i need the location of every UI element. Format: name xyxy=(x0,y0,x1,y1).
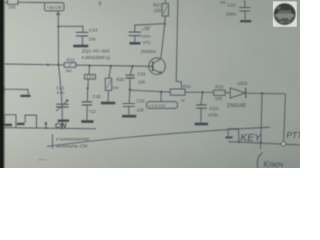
ground bottom-left B xyxy=(17,123,25,125)
node dot collector/C16 xyxy=(164,23,166,25)
wire branch to C14 xyxy=(58,26,83,31)
telegraph key symbol xyxy=(228,129,239,142)
node dot key bus 2 xyxy=(260,141,262,143)
wire node to right corner xyxy=(262,93,285,95)
wire R22 to C23 node xyxy=(185,91,214,93)
node label box "к 2-х CW" xyxy=(147,102,178,109)
crystal ZQ1 xyxy=(81,48,110,88)
ground bottom-left A xyxy=(2,124,12,126)
node +3v CW label box xyxy=(45,3,65,11)
terminal PTT circle xyxy=(281,142,285,146)
wire stub arrow onto CW wire xyxy=(45,122,47,127)
capacitor C23 xyxy=(196,92,219,122)
ground under C22 xyxy=(240,20,251,22)
ground bar of key symbol xyxy=(225,136,232,138)
paper sheet diagonal edge xyxy=(47,127,270,146)
capacitor C22 top right xyxy=(220,0,251,19)
ground under C23 xyxy=(195,123,208,126)
ground under R26 xyxy=(101,102,115,105)
wire right vertical to PTT xyxy=(284,94,286,142)
wire top rail to +3v box xyxy=(4,1,45,3)
resistor R21 xyxy=(153,0,168,24)
ground under trimmer xyxy=(58,120,69,122)
node dot C xyxy=(88,65,90,67)
dark left edge strip xyxy=(0,0,4,168)
capacitor C19 base-emitter xyxy=(125,66,146,89)
wire +3v vertical xyxy=(57,17,59,65)
ground under C20 xyxy=(122,115,136,118)
resistor R22 xyxy=(170,84,191,103)
node dot E xyxy=(131,65,133,67)
node dot A xyxy=(47,64,49,66)
wire main horizontal bus xyxy=(4,64,153,66)
capacitor C16 xyxy=(129,24,165,43)
wire from bus down to trimmer xyxy=(59,65,62,104)
faint smudge bottom left xyxy=(38,159,47,160)
small mark top middle xyxy=(98,1,102,6)
diode VD3 xyxy=(227,81,248,109)
capacitor C15 xyxy=(82,88,101,120)
wire R23 to VD3 xyxy=(225,92,230,94)
trimmer capacitor C13 xyxy=(56,86,69,120)
capacitor C20 xyxy=(123,90,146,115)
wire VD3 to node xyxy=(246,92,262,94)
logo circle avatar xyxy=(274,4,295,25)
IC pin stub A bottom-left xyxy=(4,115,16,128)
IC pin stub with ground (upper left) xyxy=(0,87,28,95)
node dot on CW wire xyxy=(45,127,47,129)
logo white square xyxy=(273,1,297,26)
wire key bottom bus xyxy=(228,142,300,145)
wire collector up to R21 xyxy=(161,24,165,59)
annotation leader line xyxy=(51,134,53,149)
capacitor C14 xyxy=(76,28,98,46)
arrow into +3v node xyxy=(57,12,60,17)
wire stub from trimmer ground to CW wire xyxy=(61,122,64,128)
ground under C14 xyxy=(73,45,88,48)
transistor VT1 xyxy=(141,40,166,75)
resistor R11 top-left xyxy=(8,0,19,10)
node dot on CW wire 2 xyxy=(60,127,62,129)
ground upper-left pin xyxy=(20,95,30,97)
resistor R12 series in bus xyxy=(64,58,76,73)
node junction dot xyxy=(57,25,59,27)
node dot crystal/C15 xyxy=(87,87,89,89)
ground under C15 xyxy=(81,120,93,123)
wire mid vertical to key bus xyxy=(261,94,262,149)
grain overlay xyxy=(0,0,300,168)
node dot emitter net left xyxy=(129,88,131,90)
node dot D xyxy=(110,65,112,67)
resistor R26 xyxy=(105,66,124,102)
node dot right xyxy=(261,92,263,94)
wire stub to CW label box xyxy=(160,92,162,101)
node dot B xyxy=(57,64,59,66)
node dot C23 xyxy=(201,91,203,93)
wire CW horizontal to synthesizer xyxy=(3,128,96,129)
node dot key bus 1 xyxy=(238,141,240,143)
annotation Ключ brace xyxy=(257,153,262,169)
wire emitter net horizontal xyxy=(130,90,170,92)
node dot emitter junction xyxy=(160,91,162,93)
wire vertical feed to R22 xyxy=(176,0,181,89)
resistor R23 xyxy=(214,84,226,101)
ground under C16 xyxy=(130,42,141,44)
IC pin stub B bottom-left xyxy=(25,115,36,128)
